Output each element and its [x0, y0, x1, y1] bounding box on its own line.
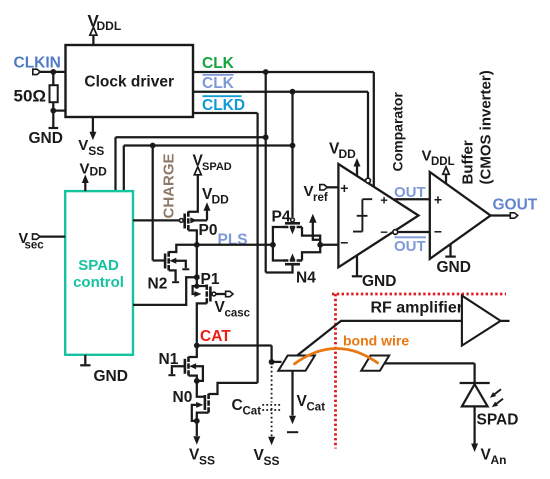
svg-text:V: V: [304, 183, 314, 200]
svg-text:DDL: DDL: [431, 156, 455, 168]
wire P1 node to SPAD control: [133, 277, 197, 305]
transistor N2 gate lead: [153, 259, 165, 261]
svg-text:Comparator: Comparator: [390, 92, 406, 172]
transistor N1 drain lead: [189, 346, 197, 358]
svg-text:GND: GND: [94, 368, 128, 385]
svg-text:+: +: [434, 192, 442, 208]
node CLK-N4 junction at y137: [263, 134, 269, 140]
SPAD control box title: [73, 257, 124, 291]
V_DD label (SPAD control): [80, 161, 108, 179]
output label OUTbar: [394, 237, 426, 255]
svg-text:GND: GND: [437, 259, 471, 276]
node N1 source / N0 gate: [194, 378, 200, 384]
svg-text:GND: GND: [29, 130, 63, 147]
svg-text:50Ω: 50Ω: [14, 87, 47, 106]
diode SPAD: [462, 384, 488, 406]
wire RF amplifier output: [501, 320, 510, 322]
wire box to V_SS arrow: [92, 117, 94, 133]
transistor N4 bulk arrow: [290, 253, 295, 260]
transistor N0 gate lead: [197, 381, 205, 397]
svg-text:−: −: [380, 225, 388, 240]
svg-text:CLKD: CLKD: [202, 97, 245, 114]
transistor N4 gate lead: [266, 264, 293, 272]
svg-text:SS: SS: [264, 454, 280, 468]
V_SPAD label: [193, 153, 232, 174]
wire package pad to SPAD: [385, 363, 475, 382]
V_SS arrow (below clock driver): [89, 132, 96, 141]
node t-gate right: [317, 242, 323, 248]
svg-text:CLK: CLK: [202, 55, 235, 72]
wire CLK branch down to N4 gate: [265, 72, 267, 273]
transistor P4 gate bubble: [291, 218, 295, 222]
comparator latch symbol: [353, 199, 372, 231]
V_SS arrow (below N0): [193, 436, 200, 445]
transistor P0 bulk lead: [194, 208, 207, 220]
transistor P1 source lead: [197, 277, 207, 286]
bond pad (chip): [278, 356, 315, 371]
node CLKIN junction: [50, 69, 56, 75]
wire CLKbar branch down to P4 gate: [291, 92, 293, 218]
terminal V_casc: [226, 291, 233, 296]
svg-text:+: +: [380, 193, 388, 208]
terminal GOUT: [510, 213, 517, 218]
svg-text:Buffer: Buffer: [460, 140, 477, 184]
buffer V_DDL label: [422, 148, 455, 169]
capacitor C_Cat bottom plate (dotted): [262, 409, 281, 411]
svg-text:(CMOS inverter): (CMOS inverter): [478, 70, 495, 184]
transistor P1 channel: [206, 285, 209, 304]
transistor N1 bulk lead: [194, 366, 203, 381]
node CAT: [194, 343, 200, 349]
V_DD arrow (SPAD control): [82, 175, 89, 184]
node P1 bulk tie: [194, 284, 199, 289]
transistor P0 channel: [187, 211, 190, 230]
V_Cat probe arrow: [289, 416, 296, 425]
transistor P0 source lead: [188, 173, 198, 212]
svg-text:SS: SS: [199, 454, 215, 468]
transistor N4 left lead: [273, 245, 283, 261]
V_SS label (below clock driver): [78, 137, 104, 158]
comparator inverted output bubble: [393, 230, 398, 235]
wire PLS to transmission gate: [197, 244, 273, 246]
V_casc label: [215, 299, 251, 320]
transistor P1 gate bubble: [212, 292, 216, 296]
V_SPAD open arrowhead: [194, 167, 201, 175]
wire V_ref to comparator: [327, 186, 338, 188]
svg-text:DDL: DDL: [97, 19, 122, 33]
transistor P0 gate bar: [183, 214, 186, 229]
svg-text:An: An: [491, 453, 507, 467]
svg-text:−: −: [434, 224, 442, 240]
wire CAT node to chip pad: [272, 361, 282, 363]
transistor P4 bulk arrow: [290, 228, 295, 235]
svg-text:GOUT: GOUT: [493, 197, 538, 214]
buffer V_DDL wire: [445, 174, 447, 184]
transistor N1 bulk arrow: [189, 363, 196, 369]
svg-text:SS: SS: [88, 144, 104, 158]
node CAT pad junction: [269, 359, 275, 365]
ground bar under SPAD control: [80, 364, 90, 366]
svg-text:N2: N2: [148, 276, 168, 293]
node CLKbar junction at y145: [290, 143, 296, 149]
V_SS label (below N0): [189, 447, 215, 468]
transistor P1 bulk arrow: [194, 291, 201, 297]
resistor R 50ohm: [50, 85, 58, 102]
capacitor C_Cat label: [232, 397, 262, 418]
wire CLKD: [193, 113, 258, 383]
svg-text:ref: ref: [313, 192, 328, 204]
parasitic capacitor C_Cat dotted lead: [271, 362, 273, 437]
wire OUT to buffer: [394, 198, 430, 200]
ground bar at N1 gate: [168, 374, 175, 376]
wire N0 source to V_SS: [196, 421, 198, 436]
transistor P1 gate bar: [209, 287, 212, 302]
transistor N0 bulk lead: [192, 405, 198, 421]
transistor N2 bulk arrow: [169, 258, 176, 264]
input terminal CLKIN: [33, 69, 40, 74]
transistor N1 channel: [187, 357, 190, 376]
wire PLS node down to P1: [196, 245, 198, 277]
svg-text:DD: DD: [339, 147, 357, 161]
transistor N0 channel: [207, 394, 210, 413]
SPAD control box: [65, 191, 133, 355]
ground bar under resistor: [49, 127, 59, 129]
svg-text:V: V: [80, 161, 90, 178]
transistor P1 bulk loop: [193, 286, 197, 294]
transistor P4 left lead: [273, 227, 283, 245]
ground bar below comparator: [352, 275, 363, 277]
transistor P0 bulk arrow: [190, 217, 197, 223]
svg-text:PLS: PLS: [218, 232, 248, 249]
comparator clock bubble: [366, 178, 371, 183]
svg-text:N1: N1: [159, 351, 179, 368]
node N0 source: [194, 418, 200, 424]
V_DDL open arrowhead: [90, 27, 97, 35]
svg-text:SPAD: SPAD: [202, 161, 232, 173]
transistor P0 gate bubble: [179, 219, 183, 223]
bond pad (package): [361, 356, 389, 371]
svg-text:CHARGE: CHARGE: [161, 153, 178, 218]
transistor N1 source lead: [189, 376, 197, 381]
svg-text:DD: DD: [212, 193, 230, 207]
node N2 gate junction: [150, 143, 156, 149]
wire GOUT: [491, 214, 511, 216]
svg-text:GND: GND: [362, 273, 396, 290]
photon arrow 2: [492, 399, 503, 408]
transistor N0 drain lead: [209, 383, 258, 394]
comparator V_DD label: [329, 141, 356, 162]
wire V_DDL to clock driver box: [92, 35, 94, 46]
wire V_Cat probe: [291, 372, 293, 416]
input label V_sec: [19, 231, 45, 252]
wire SPAD control GND: [84, 355, 86, 365]
wire chip pad to RF amplifier: [296, 321, 462, 356]
svg-text:V: V: [78, 137, 88, 154]
svg-text:OUT: OUT: [394, 238, 426, 255]
transistor N0 bulk arrow: [196, 402, 203, 408]
op-amp buffer U2: [430, 172, 491, 259]
wire V_DD to SPAD control box: [84, 180, 86, 191]
buffer GND wire: [449, 244, 451, 256]
svg-text:control: control: [73, 274, 124, 291]
svg-text:Cat: Cat: [307, 402, 326, 414]
svg-text:RF amplifier: RF amplifier: [371, 300, 463, 317]
chip boundary dotted line (left): [334, 294, 337, 449]
SPAD cathode bar: [460, 382, 490, 384]
V_DD arrow (P0): [204, 202, 211, 211]
wire gnd node down: [52, 111, 54, 128]
clock driver box: [66, 45, 194, 117]
op-amp comparator U1: [338, 164, 418, 267]
bond wire arc: [294, 348, 379, 364]
output label CLKbar: [202, 75, 235, 92]
transistor N1 gate bar: [184, 359, 187, 374]
transistor P4 gate bar: [285, 222, 300, 225]
transistor P4 right lead: [302, 227, 320, 245]
buffer V_DDL open arrowhead: [443, 167, 449, 175]
svg-text:SPAD: SPAD: [78, 257, 119, 274]
capacitor C_Cat top plate (dotted): [262, 404, 281, 406]
wire CLKbar: [193, 92, 368, 179]
svg-text:C: C: [232, 397, 243, 414]
ground bar below buffer: [445, 256, 456, 258]
wire OUTbar to buffer: [398, 231, 430, 233]
V_ref label: [304, 183, 328, 204]
photon arrow 1: [490, 389, 501, 398]
svg-text:−: −: [340, 235, 348, 251]
comparator GND wire: [356, 255, 358, 276]
chip boundary dotted line (top): [332, 293, 506, 296]
comparator V_DD arrow: [354, 158, 361, 167]
substrate bar below N2 bulk: [182, 268, 189, 270]
V_SS arrow (C_Cat): [268, 437, 275, 446]
transistor P1 drain lead: [197, 303, 207, 345]
transistor P4 channel: [283, 226, 302, 229]
V_SS label (C_Cat): [254, 447, 280, 468]
V_Cat label: [297, 393, 326, 414]
power rail V_DDL label (top): [88, 12, 122, 34]
wire CLKIN to box: [40, 71, 66, 73]
wire CLKbar branch to SPAD control: [124, 146, 293, 192]
transistor N2 source lead: [169, 270, 176, 281]
node t-gate left: [270, 242, 276, 248]
transistor N4 gate bar: [285, 263, 300, 266]
wire V_sec to box: [40, 235, 65, 237]
wire CHARGE: SPAD control to P0 gate: [133, 219, 179, 221]
wire gnd node to box: [53, 109, 65, 111]
input terminal V_sec: [33, 234, 40, 239]
output label CLKD: [202, 96, 245, 114]
transistor N2 gate bar: [164, 254, 167, 269]
svg-text:CLK: CLK: [202, 75, 235, 92]
wire CLKbar branch to N2 gate: [152, 146, 154, 261]
svg-text:CAT: CAT: [200, 328, 231, 345]
transistor P4 bulk stub: [292, 229, 294, 230]
svg-text:P0: P0: [199, 222, 218, 239]
transistor N4 channel: [283, 259, 302, 262]
node P1 source: [194, 274, 200, 280]
node CLKbar junction: [290, 89, 296, 95]
transistor N2 channel: [167, 251, 170, 270]
svg-text:SPAD: SPAD: [477, 412, 519, 429]
V_Cat reference bar: [287, 431, 298, 433]
wire transmission gate to comparator minus: [320, 244, 338, 246]
wire resistor to gnd node: [52, 102, 54, 110]
svg-text:Clock driver: Clock driver: [84, 74, 174, 91]
V_DD label (P0): [202, 186, 229, 207]
svg-text:+: +: [340, 180, 348, 196]
V_An label: [481, 447, 507, 468]
wire CLK: [193, 72, 374, 186]
transistor N0 source lead: [197, 413, 209, 421]
node resistor-gnd junction: [50, 108, 56, 114]
transistor N0 gate bar: [204, 395, 207, 410]
svg-text:DD: DD: [90, 165, 108, 179]
comparator V_DD wire: [356, 165, 358, 177]
wire P1 gate to V_casc: [216, 293, 226, 295]
node PLS: [194, 242, 200, 248]
svg-text:casc: casc: [225, 308, 251, 320]
transistor N1 gate lead: [172, 366, 185, 374]
wire CAT to bond pad: [197, 346, 272, 362]
transistor N4 bulk stub: [292, 258, 294, 260]
terminal V_ref: [320, 185, 327, 190]
transistor P0 drain lead: [188, 230, 197, 244]
svg-text:sec: sec: [25, 240, 45, 252]
amplifier RF triangle: [462, 296, 501, 346]
wire CLKIN node to resistor: [52, 72, 54, 85]
ground bar below N2 source: [172, 281, 179, 283]
svg-text:bond wire: bond wire: [343, 333, 409, 349]
V_DD arrow (t-gate): [309, 214, 317, 223]
svg-text:N4: N4: [296, 270, 316, 287]
wire V_DD arrow to t-gate: [313, 221, 320, 240]
wire CLK branch to SPAD control: [116, 137, 266, 191]
svg-text:V: V: [422, 148, 432, 165]
svg-text:Cat: Cat: [243, 406, 262, 418]
V_An arrow: [471, 444, 478, 453]
transistor N2 bulk lead: [175, 261, 186, 269]
svg-text:N0: N0: [173, 389, 193, 406]
wire SPAD anode: [473, 406, 475, 444]
node CLK junction: [263, 69, 269, 75]
transistor N4 right lead: [302, 245, 320, 261]
transistor N2 drain lead from PLS: [169, 245, 197, 252]
